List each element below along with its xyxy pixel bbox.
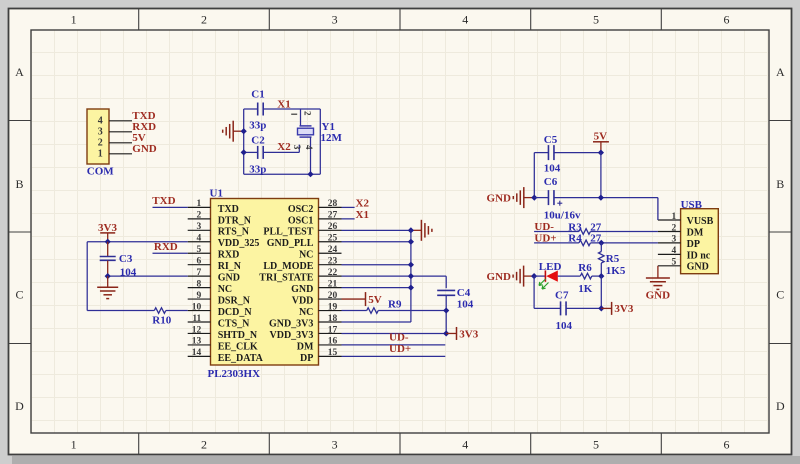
svg-text:3: 3 (332, 438, 338, 452)
wire left trunk vertical (86, 242, 88, 311)
svg-text:R6: R6 (578, 262, 592, 274)
svg-text:3: 3 (292, 145, 302, 150)
U1 left pin names (218, 204, 264, 364)
svg-text:GND_3V3: GND_3V3 (269, 318, 313, 329)
wire R5 bottom vertical to C7 (600, 276, 602, 308)
svg-text:C2: C2 (251, 134, 265, 146)
capacitor C1 (249, 88, 266, 131)
svg-text:5: 5 (593, 438, 599, 452)
wire pin18 to trunk elbow (342, 321, 411, 323)
svg-text:DCD_N: DCD_N (218, 307, 253, 318)
svg-text:R4: R4 (568, 233, 582, 245)
power port 3V3 bottom right (601, 302, 634, 315)
ground symbol left of C6 (487, 187, 535, 208)
svg-text:19: 19 (328, 302, 338, 312)
svg-text:1: 1 (672, 212, 677, 222)
svg-text:EE_CLK: EE_CLK (218, 341, 258, 352)
svg-text:104: 104 (556, 320, 573, 332)
junction LED gnd (531, 273, 537, 279)
power port 3V3 at pin17 (446, 327, 479, 340)
svg-text:USB: USB (681, 199, 703, 211)
svg-text:26: 26 (328, 222, 338, 232)
connector USB body (681, 209, 719, 274)
LED D1 (534, 261, 561, 289)
svg-text:1K: 1K (578, 283, 593, 295)
svg-text:GND: GND (687, 262, 709, 273)
svg-text:GND: GND (218, 273, 240, 284)
wire pin16 DM / UD- (342, 344, 446, 346)
capacitor C3 (100, 242, 137, 279)
svg-text:VDD: VDD (292, 295, 314, 306)
resistor R10 (87, 308, 188, 327)
power port 5V at pin20 (342, 292, 382, 306)
svg-text:VDD_3V3: VDD_3V3 (270, 330, 314, 341)
wire X1 top (crystal loop top) (244, 108, 321, 110)
wire pin26 to trunk (342, 229, 411, 231)
svg-text:X2: X2 (356, 197, 370, 209)
U1 right pin numbers (328, 199, 338, 358)
svg-text:2: 2 (201, 438, 207, 452)
svg-text:UD-: UD- (534, 221, 554, 233)
svg-text:PL2303HX: PL2303HX (208, 368, 261, 380)
svg-text:C: C (776, 288, 784, 302)
svg-text:21: 21 (328, 279, 338, 289)
svg-text:5V: 5V (368, 294, 382, 306)
svg-text:6: 6 (724, 13, 730, 27)
svg-text:TXD: TXD (218, 204, 239, 215)
svg-text:CTS_N: CTS_N (218, 318, 250, 329)
svg-text:NC: NC (299, 307, 313, 318)
wire C5 row (534, 152, 601, 154)
junction crystal pin4 bottom (307, 171, 313, 177)
sheet drop shadow (12, 456, 800, 464)
junction trunk pin22 (408, 273, 414, 279)
svg-text:15: 15 (328, 348, 338, 358)
svg-text:16: 16 (328, 337, 338, 347)
svg-text:3V3: 3V3 (459, 328, 478, 340)
ground symbol right of U1 (411, 220, 432, 241)
svg-text:4: 4 (197, 234, 202, 244)
svg-text:C3: C3 (119, 253, 133, 265)
USB pin stubs (658, 220, 681, 266)
svg-text:B: B (15, 177, 23, 191)
wire pin28 X2 (342, 206, 355, 208)
U1 right pin stubs 28-15 (319, 207, 342, 356)
svg-text:4: 4 (672, 246, 677, 256)
wire X2 row (244, 151, 300, 153)
svg-text:1: 1 (98, 149, 103, 160)
svg-text:PLL_TEST: PLL_TEST (263, 227, 313, 238)
svg-text:A: A (15, 65, 24, 79)
svg-text:10: 10 (192, 302, 202, 312)
svg-text:28: 28 (328, 199, 338, 209)
svg-text:5V: 5V (594, 131, 608, 143)
wire pin15 DP / UD+ (342, 355, 446, 357)
svg-text:VDD_325: VDD_325 (218, 238, 260, 249)
svg-text:17: 17 (328, 325, 338, 335)
junction C4/R9 (443, 307, 449, 313)
svg-text:4: 4 (462, 13, 468, 27)
svg-text:EE_DATA: EE_DATA (218, 353, 264, 364)
junction C4 bottom (443, 330, 449, 336)
svg-text:27: 27 (328, 211, 338, 221)
svg-text:DTR_N: DTR_N (218, 215, 252, 226)
svg-text:4: 4 (98, 116, 103, 127)
svg-text:25: 25 (328, 234, 338, 244)
wire TXD to pin1 (153, 206, 188, 208)
connector COM pins 4,3,2,1 (98, 116, 132, 160)
svg-text:8: 8 (197, 279, 202, 289)
wire pin27 X1 (342, 218, 355, 220)
capacitor C5 (544, 134, 561, 175)
svg-text:NC: NC (218, 284, 232, 295)
capacitor C2 (249, 134, 266, 175)
svg-text:10u/16v: 10u/16v (544, 209, 581, 221)
resistor R6 (558, 262, 602, 295)
svg-text:12M: 12M (321, 132, 343, 144)
junction trunk pin25 (408, 239, 414, 245)
wire C5-C6 left vertical (533, 153, 535, 198)
USB pin names (687, 216, 714, 273)
svg-text:6: 6 (197, 257, 202, 267)
svg-text:24: 24 (328, 245, 338, 255)
power port 5V top (593, 131, 609, 153)
wire pin21 (342, 287, 411, 289)
svg-text:UD+: UD+ (534, 233, 556, 245)
wire pin7 GND (108, 275, 188, 277)
svg-text:C6: C6 (544, 176, 558, 188)
svg-text:D: D (15, 399, 24, 413)
U1 left pin stubs 1-14 (188, 207, 211, 356)
ground symbol left of LED (487, 266, 535, 287)
wire pin17 VDD_3V3 (342, 332, 447, 334)
svg-text:1: 1 (71, 438, 77, 452)
svg-text:22: 22 (328, 268, 338, 278)
svg-text:RXD: RXD (218, 250, 240, 261)
svg-text:1K5: 1K5 (606, 265, 626, 277)
svg-text:3: 3 (332, 13, 338, 27)
USB pin numbers (672, 212, 677, 268)
svg-text:GND: GND (291, 284, 313, 295)
svg-text:UD+: UD+ (389, 343, 411, 355)
svg-text:OSC2: OSC2 (288, 204, 314, 215)
svg-text:LD_MODE: LD_MODE (263, 261, 313, 272)
ground symbol below C3 (97, 276, 118, 298)
wire 5V vertical to C6 row (600, 153, 602, 198)
svg-text:9: 9 (197, 291, 202, 301)
wire pin22 TRI_STATE to C4 branch (342, 276, 447, 288)
svg-text:NC: NC (299, 250, 313, 261)
resistor R4 (534, 233, 658, 246)
capacitor C7 (534, 289, 601, 332)
svg-text:6: 6 (724, 438, 730, 452)
svg-text:104: 104 (457, 299, 474, 311)
wire crystal bottom (244, 173, 321, 175)
svg-text:COM: COM (87, 165, 115, 177)
junction crystal gnd (241, 128, 247, 134)
junction R4/R5 (598, 240, 604, 246)
svg-text:UD-: UD- (389, 332, 409, 344)
svg-text:27: 27 (590, 221, 602, 233)
svg-text:14: 14 (192, 348, 202, 358)
junction trunk pin23 (408, 262, 414, 268)
svg-text:3: 3 (672, 235, 677, 245)
svg-text:2: 2 (98, 138, 103, 149)
svg-text:2: 2 (672, 223, 677, 233)
svg-text:OSC1: OSC1 (288, 215, 314, 226)
wire right trunk vertical (410, 230, 412, 322)
svg-text:C1: C1 (251, 88, 264, 100)
power port 3V3 left (98, 222, 117, 242)
wire VUSB elbow from C6 row (657, 198, 659, 220)
svg-text:4: 4 (462, 438, 468, 452)
svg-text:5: 5 (197, 245, 202, 255)
svg-text:D: D (776, 399, 785, 413)
svg-text:U1: U1 (210, 187, 223, 199)
wire pin25 (342, 241, 411, 243)
junction C7/3V3 (598, 305, 604, 311)
svg-text:12: 12 (192, 325, 202, 335)
junction trunk top (408, 227, 414, 233)
svg-text:7: 7 (197, 268, 202, 278)
svg-text:RXD: RXD (154, 241, 178, 253)
svg-text:R3: R3 (568, 221, 582, 233)
svg-text:5: 5 (593, 13, 599, 27)
svg-text:C4: C4 (457, 287, 471, 299)
svg-text:C: C (15, 288, 23, 302)
svg-text:X1: X1 (277, 99, 290, 111)
wire C6 row (534, 197, 658, 199)
junction trunk pin21 (408, 285, 414, 291)
svg-text:1: 1 (197, 199, 202, 209)
svg-text:C5: C5 (544, 134, 558, 146)
net labels TXD RXD 5V GND on COM (132, 110, 157, 155)
resistor R3 (534, 221, 658, 234)
svg-text:A: A (776, 65, 785, 79)
svg-text:2: 2 (303, 111, 313, 116)
svg-text:R10: R10 (152, 314, 171, 326)
svg-text:TXD: TXD (152, 195, 175, 207)
svg-text:DM: DM (297, 341, 314, 352)
junction X2 tee (241, 149, 247, 155)
svg-text:C7: C7 (555, 289, 569, 301)
svg-text:X1: X1 (356, 209, 369, 221)
svg-text:GND: GND (487, 271, 512, 283)
svg-text:4: 4 (304, 145, 314, 150)
svg-text:LED: LED (539, 261, 562, 273)
junction C3/gnd (105, 273, 111, 279)
U1 left pin numbers (192, 199, 202, 358)
svg-text:DP: DP (687, 239, 700, 250)
svg-text:GND: GND (132, 143, 157, 155)
wire RXD to pin5 (153, 252, 188, 254)
connector COM body (87, 109, 109, 164)
junction R5/R6 (598, 273, 604, 279)
svg-text:3V3: 3V3 (614, 303, 633, 315)
wire crystal right vertical (319, 109, 321, 174)
junction gnd/C6 (531, 195, 537, 201)
svg-text:3: 3 (197, 222, 202, 232)
ground symbol at crystal (223, 121, 244, 142)
wire pin23 (342, 264, 411, 266)
svg-text:18: 18 (328, 314, 338, 324)
svg-text:104: 104 (544, 162, 561, 174)
svg-text:13: 13 (192, 337, 202, 347)
svg-text:TRI_STATE: TRI_STATE (259, 273, 313, 284)
svg-text:B: B (776, 177, 784, 191)
junction C6/5V vertical (598, 195, 604, 201)
svg-text:GND: GND (646, 289, 671, 301)
svg-text:DM: DM (687, 227, 704, 238)
capacitor C6 electrolytic (544, 176, 581, 222)
ground symbol below USB pin5 (646, 266, 671, 302)
resistor R5 (599, 243, 626, 277)
U1 right pin names (259, 204, 314, 364)
svg-text:VUSB: VUSB (687, 216, 714, 227)
svg-text:RTS_N: RTS_N (218, 227, 250, 238)
svg-text:33p: 33p (249, 120, 266, 132)
op IC U1 body (211, 199, 319, 366)
svg-text:3: 3 (98, 127, 103, 138)
svg-text:X2: X2 (277, 141, 291, 153)
svg-text:5: 5 (672, 258, 677, 268)
svg-text:23: 23 (328, 257, 338, 267)
wire pin4 VDD_325 (87, 241, 188, 243)
svg-text:DP: DP (300, 353, 313, 364)
svg-text:20: 20 (328, 291, 338, 301)
svg-text:GND_PLL: GND_PLL (267, 238, 314, 249)
svg-text:RI_N: RI_N (218, 261, 242, 272)
svg-text:R9: R9 (388, 299, 402, 311)
junction 3V3/C3 (105, 239, 111, 245)
svg-text:R5: R5 (606, 253, 620, 265)
wire crystal left vertical (gnd rail) (243, 109, 245, 174)
svg-text:GND: GND (487, 193, 512, 205)
junction 5V/C5 (598, 150, 604, 156)
capacitor C4 (437, 287, 474, 334)
svg-text:2: 2 (197, 211, 202, 221)
svg-text:2: 2 (201, 13, 207, 27)
wire LED left vertical to C7 (533, 276, 535, 308)
svg-text:ID nc: ID nc (687, 250, 711, 261)
svg-text:Y1: Y1 (322, 121, 335, 133)
crystal Y1 (291, 109, 342, 174)
svg-text:1: 1 (71, 13, 77, 27)
svg-text:11: 11 (192, 314, 201, 324)
svg-text:SHTD_N: SHTD_N (218, 330, 258, 341)
resistor R9 (342, 299, 447, 314)
svg-text:DSR_N: DSR_N (218, 295, 251, 306)
